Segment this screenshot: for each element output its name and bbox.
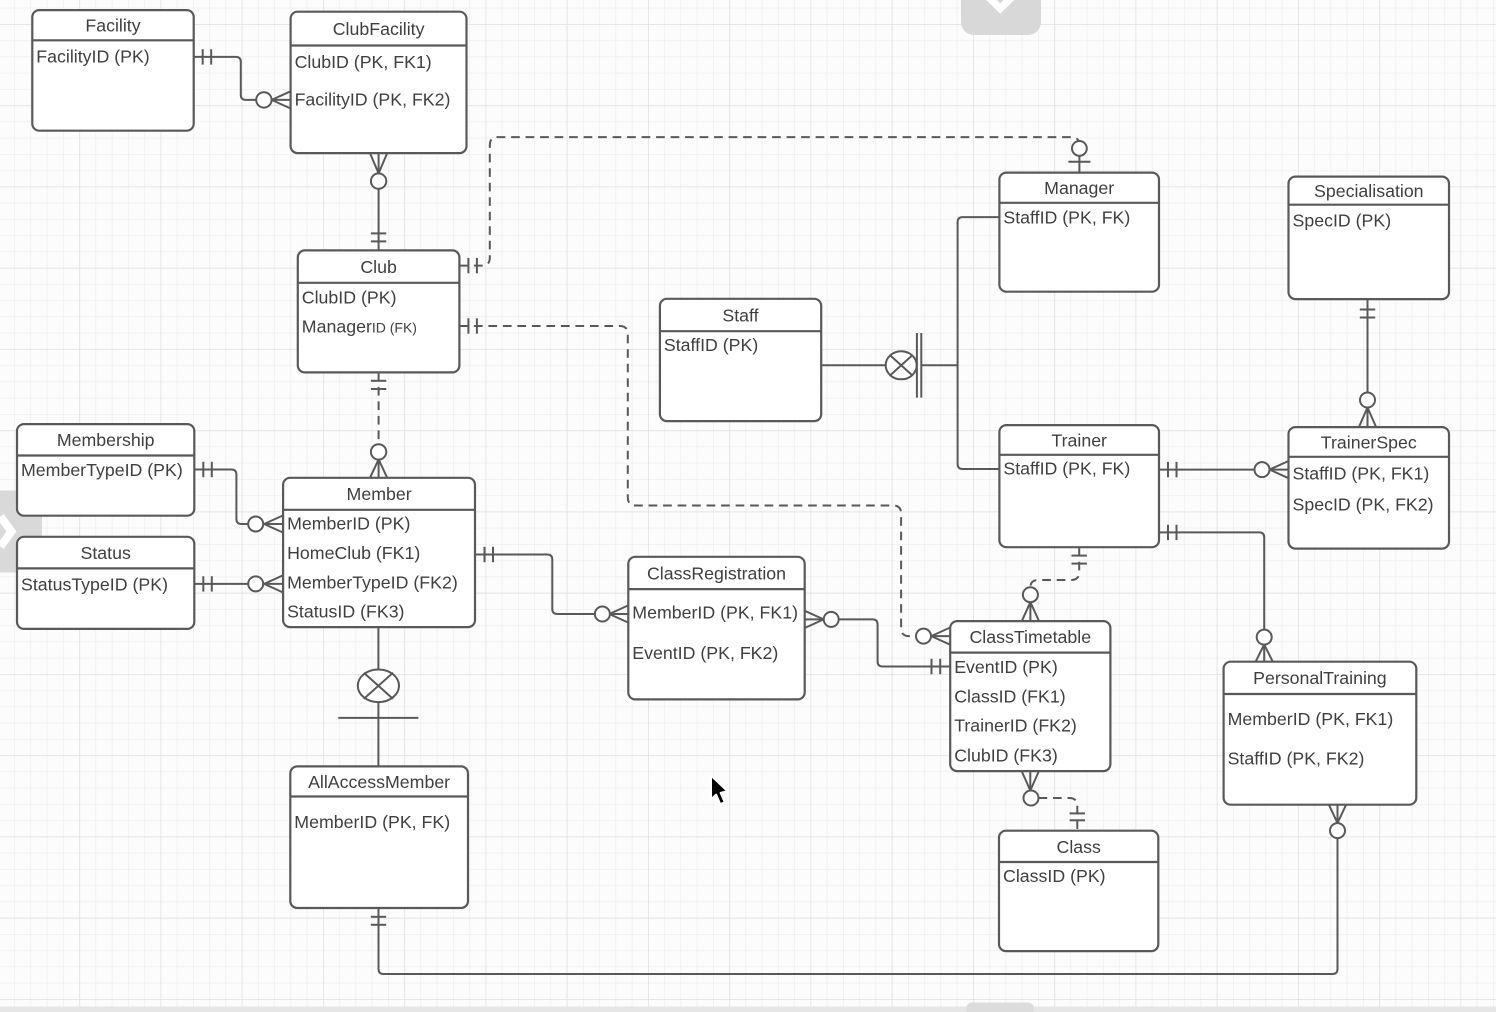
svg-text:PersonalTraining: PersonalTraining (1253, 668, 1387, 688)
left panel toggle tab (0, 491, 42, 573)
svg-text:Member: Member (347, 484, 412, 504)
bottom panel toggle button (partial) (966, 1003, 1034, 1012)
svg-text:ClassID (FK1): ClassID (FK1) (954, 686, 1065, 706)
svg-text:Trainer: Trainer (1051, 430, 1107, 450)
relationship Membership-Member (one to zero-or-many) (194, 462, 283, 533)
entity TrainerSpec (1289, 427, 1450, 548)
relationship ClubFacility-Club (zero-or-many to one) (370, 153, 387, 250)
svg-text:TrainerID (FK2): TrainerID (FK2) (954, 716, 1077, 736)
relationship Staff-Manager/Trainer (exclusive arc junction) (821, 217, 999, 469)
svg-text:ClassID (PK): ClassID (PK) (1003, 866, 1106, 886)
svg-text:TrainerSpec: TrainerSpec (1321, 432, 1417, 452)
svg-text:Manager: Manager (1044, 178, 1114, 198)
bottom edge band (0, 1007, 1496, 1012)
svg-text:ClubID (PK): ClubID (PK) (302, 287, 397, 307)
entity ClubFacility (291, 12, 467, 153)
relationship Club-Member (one to zero-or-many, dashed) (370, 372, 387, 477)
svg-text:Club: Club (360, 257, 397, 277)
svg-text:MemberID (PK, FK): MemberID (PK, FK) (294, 812, 450, 832)
svg-text:MemberID (PK, FK1): MemberID (PK, FK1) (632, 603, 798, 623)
exclusion double bar (916, 333, 918, 398)
relationship Status-Member (one to zero-or-many) (194, 575, 283, 592)
relationship Club-ClassTimetable (one to zero-or-many, dashed) (459, 318, 950, 644)
subtype bar (338, 717, 418, 719)
svg-text:StaffID (PK, FK): StaffID (PK, FK) (1003, 459, 1130, 479)
svg-text:MemberTypeID (PK): MemberTypeID (PK) (21, 460, 183, 480)
svg-text:ClassRegistration: ClassRegistration (647, 563, 786, 583)
svg-text:ClubID (FK3): ClubID (FK3) (954, 746, 1058, 766)
relationship Trainer-ClassTimetable (one to zero-or-many, dashed) (1022, 547, 1087, 621)
svg-text:StaffID (PK, FK1): StaffID (PK, FK1) (1293, 463, 1430, 483)
entity ClassRegistration (628, 557, 804, 700)
svg-text:Class: Class (1057, 837, 1102, 857)
relationship Specialisation-TrainerSpec (one to zero-or-many) (1359, 299, 1376, 427)
relationship Member-AllAccessMember (exclusive subtype arc) (338, 627, 418, 766)
svg-text:ClubFacility: ClubFacility (333, 19, 425, 39)
relationship Trainer-PersonalTraining (one to zero-or-many) (1159, 525, 1273, 662)
entity Facility (32, 10, 193, 131)
relationship Facility-ClubFacility (one to zero-or-many) (194, 49, 291, 108)
entity AllAccessMember (290, 766, 468, 908)
svg-text:FacilityID (PK, FK2): FacilityID (PK, FK2) (295, 89, 451, 109)
svg-text:EventID (PK): EventID (PK) (954, 657, 1058, 677)
entity Trainer (999, 425, 1159, 547)
svg-text:Specialisation: Specialisation (1314, 181, 1424, 201)
svg-text:StaffID (PK, FK): StaffID (PK, FK) (1003, 208, 1130, 228)
relationship AllAccessMember-PersonalTraining (one to zero-or-many) (371, 805, 1346, 974)
svg-text:MemberID (PK, FK1): MemberID (PK, FK1) (1228, 709, 1394, 729)
svg-text:StaffID (PK, FK2): StaffID (PK, FK2) (1228, 749, 1365, 769)
svg-text:Membership: Membership (57, 430, 155, 450)
entity ClassTimetable (950, 621, 1110, 771)
entity Manager (999, 173, 1159, 292)
svg-text:Facility: Facility (85, 16, 140, 36)
relationship Trainer-TrainerSpec (one to zero-or-many) (1159, 461, 1289, 478)
svg-text:AllAccessMember: AllAccessMember (308, 772, 450, 792)
entity Status (17, 537, 194, 629)
entity Club (298, 250, 460, 372)
svg-text:ClubID (PK, FK1): ClubID (PK, FK1) (295, 52, 432, 72)
svg-text:ManagerID (FK): ManagerID (FK) (302, 316, 417, 336)
svg-text:MemberTypeID (FK2): MemberTypeID (FK2) (287, 572, 458, 592)
svg-text:ClassTimetable: ClassTimetable (969, 627, 1091, 647)
svg-text:EventID (PK, FK2): EventID (PK, FK2) (632, 643, 778, 663)
entity Class (999, 831, 1158, 951)
svg-text:MemberID (PK): MemberID (PK) (287, 514, 410, 534)
svg-text:StatusTypeID (PK): StatusTypeID (PK) (21, 574, 168, 594)
relationship Member-ClassRegistration (one to zero-or-many) (476, 547, 629, 623)
relationship ClassRegistration-ClassTimetable (zero-or-many to one) (805, 611, 951, 674)
svg-text:HomeClub (FK1): HomeClub (FK1) (287, 543, 420, 563)
entity Specialisation (1289, 177, 1450, 300)
svg-text:StaffID (PK): StaffID (PK) (664, 335, 758, 355)
svg-text:SpecID (PK): SpecID (PK) (1293, 211, 1392, 231)
svg-text:Status: Status (81, 543, 131, 563)
entity Member (283, 478, 475, 627)
entity Membership (17, 424, 194, 516)
top panel toggle button (961, 0, 1041, 35)
entity PersonalTraining (1224, 662, 1417, 805)
mouse cursor (711, 775, 728, 804)
branch to Manager and Trainer (958, 217, 1000, 469)
svg-text:SpecID (PK, FK2): SpecID (PK, FK2) (1293, 495, 1434, 515)
relationship Club-Manager (one to zero-or-one, dashed) (459, 137, 1090, 273)
entity Staff (660, 299, 821, 421)
svg-text:FacilityID (PK): FacilityID (PK) (36, 46, 149, 66)
svg-text:Staff: Staff (722, 305, 758, 325)
svg-text:StatusID (FK3): StatusID (FK3) (287, 602, 404, 622)
relationship ClassTimetable-Class (zero-or-many to one, dashed) (1022, 771, 1085, 831)
